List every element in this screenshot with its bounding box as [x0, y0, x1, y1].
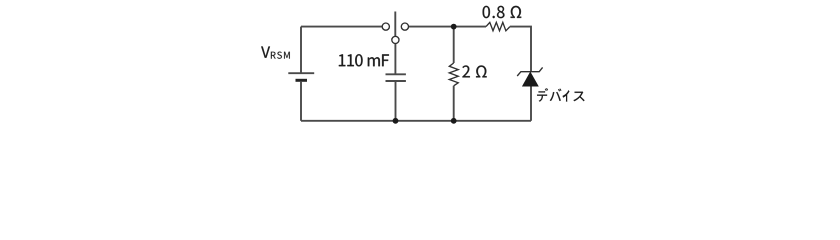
wire: 2 ohm resistor to bottom rail — [453, 86, 455, 121]
wire: battery to bottom rail — [300, 82, 302, 121]
capacitor C1 bottom plate — [386, 80, 406, 82]
wire: capacitor to bottom rail — [395, 82, 397, 121]
label V of source V_RSM — [261, 46, 270, 57]
wire: left branch top (corner down to battery) — [300, 27, 302, 73]
capacitor C1 top plate — [386, 73, 406, 75]
wire: top rail mid segment (switch to 0.8ohm resistor) — [409, 26, 486, 28]
wire: 2 ohm branch top (node to resistor) — [453, 27, 455, 63]
label デバイス (device) — [537, 88, 548, 101]
zener diode device triangle (anode, pointing up) — [523, 72, 539, 86]
label RSM subscript — [271, 52, 276, 59]
junction node: top rail / 2 ohm branch — [451, 24, 457, 30]
label 0.8 ohm (resistor value) — [483, 6, 490, 18]
wire: zener anode to bottom rail — [530, 86, 532, 121]
switch S1 left contact — [382, 23, 389, 30]
switch S1 pole contact — [392, 36, 399, 43]
wire: bottom rail — [301, 120, 531, 122]
zener diode cathode bar — [517, 67, 542, 76]
label 110 mF (capacitor value) — [339, 54, 345, 66]
battery V_RSM negative plate (short thick) — [296, 79, 308, 82]
resistor R1 0.8 ohm zigzag — [486, 22, 510, 30]
switch lever — [394, 12, 396, 37]
wire: top rail left segment (battery to switch) — [301, 26, 382, 28]
resistor R2 2 ohm zigzag — [449, 63, 458, 86]
battery V_RSM positive plate (long thin) — [288, 72, 314, 74]
junction node: bottom rail / 2 ohm branch — [451, 118, 457, 124]
circuit schematic: V_RSM source, switch, 110 mF capacitor, 0.8 ohm and 2 ohm resistors, zener device — [0, 0, 840, 136]
label 2 ohm (resistor value) — [462, 65, 469, 77]
junction node: bottom rail / capacitor branch — [393, 118, 399, 124]
switch S1 right contact — [401, 23, 408, 30]
wire: switch pole down to capacitor — [394, 44, 396, 74]
wire: top rail right segment + right branch down to zener — [510, 27, 531, 71]
